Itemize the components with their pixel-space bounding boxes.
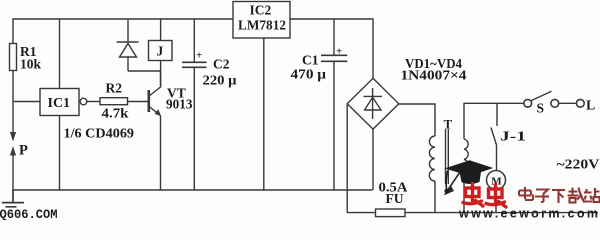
wire bridge left down to fuse line bbox=[346, 104, 348, 213]
resistor R1 bbox=[10, 44, 17, 71]
transformer T secondary winding bbox=[464, 139, 469, 180]
svg-text:IC2: IC2 bbox=[250, 3, 272, 18]
arrow on transformer bbox=[449, 172, 461, 189]
wire C1 drop bbox=[333, 19, 335, 55]
wire bottom rail bbox=[13, 189, 373, 191]
wire C2 drop bbox=[193, 19, 195, 62]
fuse FU bbox=[376, 209, 406, 217]
svg-text:10k: 10k bbox=[20, 57, 42, 72]
resistor R2 bbox=[100, 98, 128, 105]
switch S bbox=[524, 99, 532, 107]
svg-text:9013: 9013 bbox=[166, 97, 193, 112]
wire J-1 branch bbox=[496, 103, 498, 126]
wire fuse line bbox=[347, 212, 598, 214]
relay coil J bbox=[149, 41, 173, 61]
svg-text:P: P bbox=[19, 143, 28, 159]
terminal L bbox=[576, 99, 584, 107]
probe P arrowheads bbox=[10, 132, 16, 142]
wire diode bottom to J lead bbox=[128, 70, 161, 72]
svg-text:S: S bbox=[537, 101, 545, 116]
capacitor C1 bbox=[321, 55, 347, 61]
wire bridge right to T primary bbox=[399, 104, 435, 136]
watermark graduation cap bbox=[444, 160, 493, 193]
svg-text:+: + bbox=[196, 50, 202, 62]
svg-text:R2: R2 bbox=[106, 81, 123, 96]
svg-text:~220V: ~220V bbox=[557, 158, 600, 173]
svg-text:IC1: IC1 bbox=[48, 96, 71, 111]
svg-text:C2: C2 bbox=[213, 57, 230, 72]
svg-text:LM7812: LM7812 bbox=[238, 18, 286, 33]
wire J top drop bbox=[160, 19, 162, 41]
motor M bbox=[487, 171, 506, 190]
transistor VT emitter arrowhead bbox=[155, 109, 162, 116]
transformer T core bbox=[446, 129, 449, 184]
bridge rectifier VD1-VD4 bbox=[347, 78, 399, 129]
relay contact J-1 bbox=[491, 128, 497, 172]
wire IC1 top bbox=[59, 19, 61, 89]
wire J bottom to VT collector bbox=[160, 61, 162, 88]
ground bbox=[2, 190, 24, 207]
probe P up arrow bbox=[12, 154, 14, 190]
svg-text:C1: C1 bbox=[302, 53, 319, 68]
probe P down arrow bbox=[12, 102, 14, 134]
wire IC1 bottom bbox=[59, 116, 61, 191]
svg-text:4.7k: 4.7k bbox=[102, 106, 130, 121]
wire motor to bottom line bbox=[495, 189, 497, 213]
capacitor C2 bbox=[182, 62, 207, 67]
wire IC2 ground bbox=[263, 38, 265, 190]
regulator IC2 bbox=[233, 2, 290, 39]
watermark bug logo 虫虫 bbox=[463, 184, 506, 208]
wire VT emitter to rail bbox=[160, 116, 162, 191]
wire node A to IC1 input bbox=[13, 101, 40, 103]
wire T primary bottom bbox=[434, 181, 436, 213]
transformer T primary winding bbox=[429, 136, 435, 181]
wire bubble to R2 bbox=[87, 101, 100, 103]
wire top rail right bbox=[290, 19, 373, 78]
svg-text:www.eeworm.com: www.eeworm.com bbox=[458, 207, 598, 221]
svg-text:Q606.COM: Q606.COM bbox=[0, 208, 58, 220]
wire top-left rail bbox=[13, 19, 233, 44]
wire T secondary top to switch S bbox=[464, 103, 524, 139]
wire R1 bottom to node A bbox=[12, 71, 14, 102]
svg-text:+: + bbox=[336, 46, 342, 58]
svg-text:1/6 CD4069: 1/6 CD4069 bbox=[64, 126, 135, 141]
svg-text:470 μ: 470 μ bbox=[291, 67, 327, 82]
svg-text:L: L bbox=[586, 99, 595, 114]
wire R2 to VT base bbox=[128, 101, 149, 103]
svg-text:T: T bbox=[444, 117, 453, 132]
wire bridge bottom to rail bbox=[372, 129, 374, 190]
svg-text:FU: FU bbox=[386, 191, 404, 206]
watermark text dianzi xiazaizhan bbox=[519, 187, 600, 203]
svg-text:J-1: J-1 bbox=[500, 129, 526, 144]
op-amp IC1 (inverter box) bbox=[40, 89, 79, 116]
diode VD (relay clamp) bbox=[117, 41, 139, 43]
svg-text:220 μ: 220 μ bbox=[203, 73, 237, 88]
wire diode drop bbox=[127, 19, 129, 42]
transistor VT bbox=[148, 90, 151, 112]
wire T secondary bottom bbox=[463, 180, 465, 213]
wire S to terminal L bbox=[559, 102, 577, 104]
svg-text:1N4007×4: 1N4007×4 bbox=[401, 68, 467, 83]
svg-text:J: J bbox=[157, 44, 164, 59]
